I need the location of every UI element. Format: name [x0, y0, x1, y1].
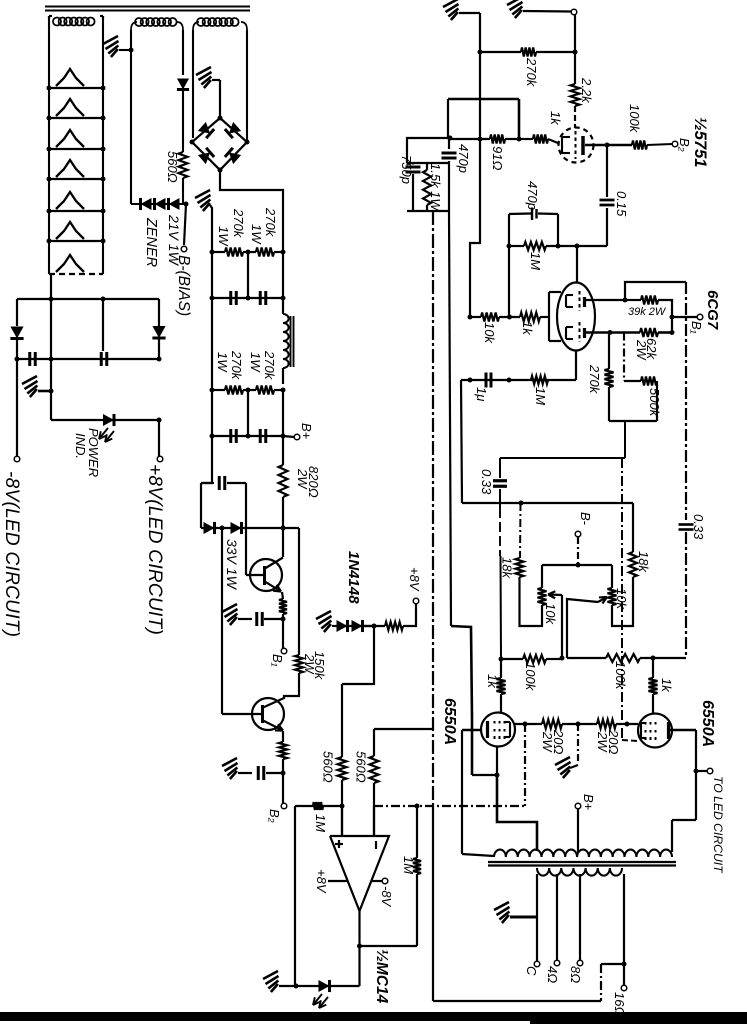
- svg-text:33V 1W: 33V 1W: [224, 539, 240, 591]
- svg-text:18k: 18k: [500, 557, 515, 579]
- svg-text:500k: 500k: [647, 388, 662, 418]
- svg-text:6550A: 6550A: [699, 700, 716, 747]
- svg-text:B₂: B₂: [677, 138, 692, 152]
- svg-text:8Ω: 8Ω: [568, 966, 583, 983]
- svg-text:B₂: B₂: [267, 809, 282, 823]
- svg-text:1k: 1k: [485, 674, 500, 689]
- svg-text:ZENER: ZENER: [143, 217, 159, 268]
- svg-text:0.15: 0.15: [614, 191, 629, 217]
- svg-text:1M: 1M: [533, 387, 548, 405]
- svg-text:1.5k 1W: 1.5k 1W: [428, 163, 443, 212]
- svg-text:470p: 470p: [456, 144, 471, 173]
- svg-text:1M: 1M: [401, 856, 416, 874]
- svg-text:2W: 2W: [634, 339, 649, 361]
- svg-text:270k: 270k: [231, 208, 246, 239]
- svg-text:470p: 470p: [525, 181, 540, 210]
- svg-text:2.2k: 2.2k: [579, 77, 594, 104]
- svg-text:IND.: IND.: [73, 433, 88, 459]
- svg-text:18k: 18k: [636, 551, 651, 573]
- svg-text:1μ: 1μ: [474, 387, 489, 401]
- svg-text:2W: 2W: [540, 731, 555, 753]
- svg-text:1k: 1k: [520, 321, 535, 336]
- svg-text:1k: 1k: [659, 678, 674, 693]
- svg-text:B-(BIAS): B-(BIAS): [175, 255, 192, 316]
- svg-text:100k: 100k: [523, 662, 538, 692]
- svg-text:560Ω: 560Ω: [165, 151, 180, 183]
- svg-text:TO LED CIRCUIT: TO LED CIRCUIT: [711, 776, 725, 874]
- svg-text:4Ω: 4Ω: [545, 966, 560, 983]
- svg-text:½5751: ½5751: [691, 117, 709, 167]
- svg-text:0.33: 0.33: [691, 514, 706, 540]
- svg-text:10k: 10k: [543, 603, 558, 625]
- svg-text:B₁: B₁: [270, 654, 285, 667]
- svg-text:B₁: B₁: [689, 321, 704, 334]
- svg-text:1N4148: 1N4148: [345, 551, 362, 604]
- svg-text:C: C: [524, 966, 539, 976]
- svg-text:91Ω: 91Ω: [490, 146, 505, 170]
- svg-text:560Ω: 560Ω: [321, 751, 336, 783]
- svg-text:½MC14: ½MC14: [373, 949, 390, 1004]
- svg-text:270k: 270k: [262, 350, 277, 381]
- svg-text:6CG7: 6CG7: [704, 290, 721, 330]
- svg-text:B-: B-: [578, 512, 593, 526]
- svg-text:100k: 100k: [627, 104, 642, 134]
- svg-text:+8V: +8V: [407, 567, 422, 592]
- svg-text:10k: 10k: [482, 322, 497, 344]
- svg-text:100k: 100k: [613, 661, 628, 691]
- svg-text:B+: B+: [581, 794, 596, 811]
- svg-text:2W: 2W: [595, 731, 610, 753]
- svg-text:270k: 270k: [263, 207, 278, 238]
- svg-text:1k: 1k: [548, 111, 563, 126]
- svg-text:1W: 1W: [215, 352, 230, 373]
- svg-text:39k 2W: 39k 2W: [628, 306, 667, 318]
- svg-text:1M: 1M: [528, 252, 543, 270]
- svg-text:+8V(LED CIRCUIT): +8V(LED CIRCUIT): [144, 464, 165, 635]
- svg-text:2W: 2W: [302, 653, 317, 675]
- svg-text:270k: 270k: [524, 57, 539, 88]
- svg-text:1W: 1W: [216, 226, 231, 247]
- svg-text:270k: 270k: [229, 350, 244, 381]
- svg-text:-8V: -8V: [379, 886, 394, 908]
- svg-text:560Ω: 560Ω: [354, 751, 369, 783]
- svg-text:10k: 10k: [614, 588, 629, 610]
- svg-text:6550A: 6550A: [441, 698, 458, 745]
- svg-text:2W: 2W: [295, 468, 310, 490]
- svg-text:1W: 1W: [248, 352, 263, 373]
- svg-text:1W: 1W: [249, 224, 264, 245]
- svg-text:0.33: 0.33: [479, 469, 494, 495]
- svg-text:1M: 1M: [313, 814, 328, 832]
- svg-text:B+: B+: [299, 423, 314, 440]
- svg-text:+8V: +8V: [314, 869, 329, 894]
- svg-text:-8V(LED CIRCUIT): -8V(LED CIRCUIT): [1, 471, 22, 637]
- svg-text:270k: 270k: [587, 364, 602, 395]
